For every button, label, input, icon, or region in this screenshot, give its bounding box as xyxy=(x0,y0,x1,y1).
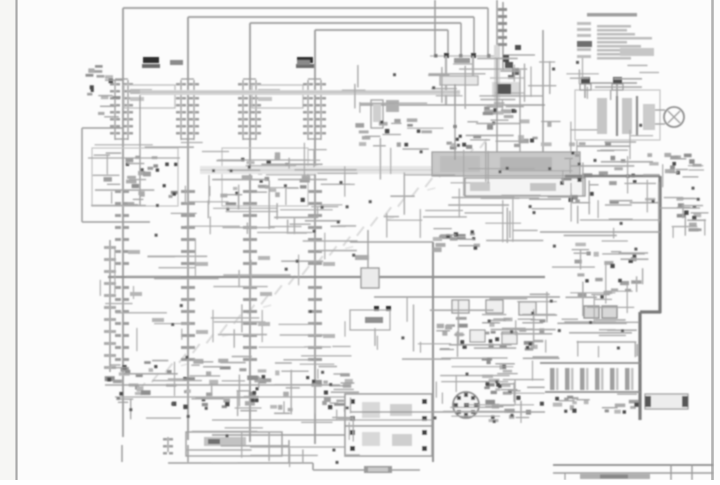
transformer T1 output xyxy=(575,77,660,140)
wire mesh bottom center xyxy=(186,416,360,468)
resistor R10 screen grid xyxy=(124,85,175,108)
node watermark xyxy=(138,139,487,395)
wire mesh psu area xyxy=(433,358,544,423)
wire supply feed xyxy=(350,411,545,413)
wire bottom return xyxy=(168,463,420,470)
wire loop send xyxy=(519,70,521,152)
title block xyxy=(553,465,713,480)
capacitor C12 xyxy=(483,103,524,118)
wire center drop xyxy=(432,242,434,462)
wire right link y220 xyxy=(580,219,660,221)
wire plate bus 4 xyxy=(315,30,448,444)
wire screen drop 2 xyxy=(496,58,498,152)
resistor network RN1 xyxy=(447,119,561,149)
capacitor C15 cluster xyxy=(355,118,432,146)
label V1 6L6GC xyxy=(142,57,160,68)
fuse F2 xyxy=(612,84,623,90)
wire screen drop 1 xyxy=(454,84,456,160)
wire mesh right lower strip xyxy=(558,320,639,358)
wire mesh reverb right xyxy=(563,124,660,239)
wire plate bus 1 xyxy=(123,8,488,437)
tube V3 6L6GC xyxy=(238,79,261,361)
wire mesh mid columns xyxy=(100,226,357,299)
switch S2 impedance xyxy=(664,153,701,177)
transformer T2 reverb driver xyxy=(432,152,580,176)
tube V7 12AT7 reverb xyxy=(561,142,660,204)
relay K1 xyxy=(345,394,432,426)
wire bottom bus 3 xyxy=(250,446,345,448)
wire y242 link xyxy=(350,241,433,243)
wire screen bus xyxy=(435,0,497,58)
relay K3 loop switching xyxy=(465,178,585,196)
resistor R41 xyxy=(602,306,617,318)
wire riser xyxy=(288,440,290,463)
potentiometer VR4 bass xyxy=(518,302,546,351)
connector J1 preamp header xyxy=(494,2,535,105)
label R labels column stubs xyxy=(128,250,335,338)
speaker LS1 xyxy=(655,107,684,127)
diode D5 cluster xyxy=(490,45,525,93)
capacitor bank C20-C25 xyxy=(540,363,640,392)
node bus junctions xyxy=(430,53,500,105)
wire plate bus 3 xyxy=(250,23,461,442)
wire shield band left xyxy=(200,166,432,174)
capacitor C13 bold xyxy=(492,82,520,97)
wire B+ rail xyxy=(360,104,545,106)
wire right link y232 xyxy=(540,231,660,233)
wire jack feed xyxy=(660,207,700,209)
wire mesh effects section xyxy=(369,122,577,243)
wire negative feedback xyxy=(82,128,150,222)
label V4 xyxy=(297,60,310,65)
wire V1 cathode lead xyxy=(104,240,116,372)
parts list notes xyxy=(577,13,654,60)
tube V12 12AX7 mixer xyxy=(306,373,354,412)
wire mesh bottom preamp xyxy=(123,356,359,420)
label V2 xyxy=(170,60,183,65)
connector J3 footswitch xyxy=(163,432,282,456)
resistor R50 xyxy=(364,466,392,473)
resistor R40 xyxy=(584,306,599,318)
relay K2 xyxy=(345,426,432,456)
wire heater rail xyxy=(108,276,545,278)
connector J2 speaker jacks xyxy=(677,197,709,231)
wire band shield xyxy=(140,90,460,95)
tube V10 12AX7 second stage xyxy=(166,359,231,409)
capacitor C41 filter xyxy=(485,388,544,422)
tube V4 6L6GC xyxy=(303,79,326,361)
tube V5 12AX7 phase inverter xyxy=(88,148,180,206)
tube V11 12AX7 tone stage xyxy=(237,368,300,411)
potentiometer VR1 presence xyxy=(440,58,478,105)
tube V1 6L6GC xyxy=(110,79,133,462)
wire chassis boundary xyxy=(640,176,661,420)
capacitor C40 bias caps xyxy=(433,229,480,252)
fuse F1 xyxy=(580,84,591,90)
rectifier D1-D4 xyxy=(553,394,639,414)
resistor R30 screen grid xyxy=(252,85,303,108)
potentiometer VR6 middle xyxy=(470,330,517,344)
potentiometer VR3 treble xyxy=(482,300,513,349)
trimmer VR5 bias xyxy=(350,230,391,330)
resistor R21 xyxy=(371,100,399,128)
wire cathode bus xyxy=(105,385,356,397)
tube V8 12AX7 xyxy=(572,243,642,299)
wire mesh preamp interconnect xyxy=(342,58,556,112)
wire bias rail xyxy=(374,296,560,298)
resistor R60 dropper xyxy=(645,394,688,409)
tube V2 6L6GC xyxy=(176,79,199,462)
switch S1 rotary xyxy=(453,392,479,418)
wire mesh lower mid xyxy=(105,304,350,352)
wire mesh right column xyxy=(547,241,649,350)
wire mesh coupling network xyxy=(185,165,358,235)
label V3 6L6GC xyxy=(296,57,314,68)
wire mesh tone controls xyxy=(375,294,560,359)
tube V6 12AX7 driver xyxy=(218,148,310,206)
wire plate bus 2 xyxy=(188,17,474,440)
wire mesh output section xyxy=(566,58,659,100)
capacitor C30 bank2 xyxy=(482,357,518,389)
tube V9 12AX7 input stage xyxy=(105,361,158,402)
wire mesh jacks column xyxy=(663,164,706,238)
wire right drop xyxy=(542,30,544,165)
wire mesh driver band xyxy=(91,143,345,214)
wire bottom bus 2 xyxy=(212,419,433,421)
wire V1 grid lead xyxy=(139,95,141,205)
wire ground bus xyxy=(212,434,345,436)
potentiometer VR2 volume xyxy=(436,300,469,350)
capacitor C1 coupling xyxy=(86,65,123,117)
